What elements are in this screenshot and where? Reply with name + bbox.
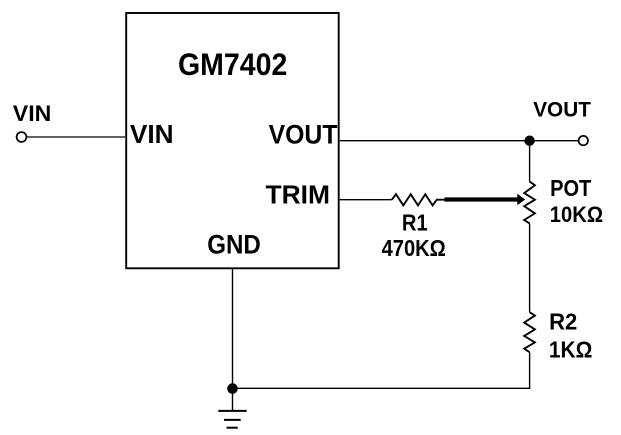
svg-text:GM7402: GM7402 <box>178 46 287 82</box>
svg-text:TRIM: TRIM <box>266 179 331 209</box>
svg-text:VOUT: VOUT <box>533 99 591 122</box>
svg-text:VOUT: VOUT <box>269 119 338 149</box>
svg-text:R1: R1 <box>402 210 428 236</box>
svg-text:R2: R2 <box>549 309 577 335</box>
svg-text:POT: POT <box>550 175 591 201</box>
svg-text:VIN: VIN <box>130 121 174 149</box>
svg-text:GND: GND <box>207 230 261 260</box>
svg-text:470KΩ: 470KΩ <box>382 235 446 261</box>
svg-text:10KΩ: 10KΩ <box>550 202 603 227</box>
svg-text:1KΩ: 1KΩ <box>549 337 593 363</box>
svg-text:VIN: VIN <box>13 101 52 126</box>
